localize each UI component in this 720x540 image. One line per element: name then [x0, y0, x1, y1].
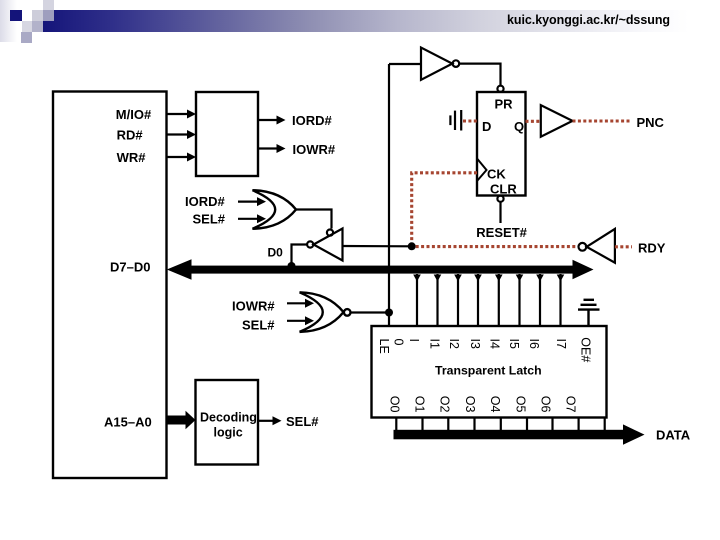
wire IORD# out [258, 116, 286, 125]
header url text [507, 13, 670, 27]
svg-text:DATA: DATA [656, 428, 691, 443]
wire M/IO# [167, 110, 197, 119]
header light column [43, 0, 54, 11]
wire RDY (dotted) [615, 245, 632, 248]
wire WR# [167, 153, 197, 162]
svg-text:O3: O3 [463, 396, 477, 413]
wire INV1 out to PR [459, 64, 500, 86]
header navy square [10, 10, 22, 21]
svg-text:D7–D0: D7–D0 [110, 260, 150, 275]
svg-text:I3: I3 [468, 339, 482, 349]
node D0 on bus [288, 262, 296, 270]
wire latch output 4 [500, 418, 502, 432]
wire B2 to PNC (dotted) [573, 119, 632, 122]
svg-text:O5: O5 [513, 396, 527, 413]
wire CK (dotted) [412, 173, 477, 244]
wire G2 out to LE [351, 311, 390, 313]
wire latch output 3 [473, 418, 475, 432]
wire B1 out to D0 node [292, 245, 308, 265]
decoding logic box U4 [196, 380, 259, 465]
svg-text:O7: O7 [564, 396, 578, 413]
bus DATA [394, 424, 645, 444]
svg-text:CK: CK [487, 167, 506, 182]
inverter INV1 [421, 48, 459, 80]
svg-text:Decoding: Decoding [200, 411, 257, 425]
svg-text:WR#: WR# [117, 150, 147, 165]
header square b (over bar) [43, 10, 54, 21]
buffer B3 (RDY) [579, 229, 615, 263]
wire IORD# into G1 [238, 197, 266, 206]
wire CLR to RESET# [499, 202, 501, 223]
svg-text:SEL#: SEL# [193, 212, 226, 227]
wire SEL# into G2 [287, 316, 314, 325]
wire bus to latch I4 [495, 274, 503, 326]
svg-text:IORD#: IORD# [185, 194, 226, 209]
wire IOWR# into G2 [287, 299, 314, 308]
decoder box U1 [196, 92, 258, 176]
node CK/RDY junction [408, 242, 416, 250]
clock wedge on FF [477, 159, 487, 182]
wire latch output 2 [447, 418, 449, 432]
wire latch output 6 [551, 418, 553, 432]
wire latch output 5 [526, 418, 528, 432]
svg-text:O0: O0 [387, 396, 401, 413]
svg-text:A15–A0: A15–A0 [104, 415, 152, 430]
wire bus to latch I3 [474, 274, 482, 326]
CPU box [53, 92, 167, 479]
CLR bubble [497, 196, 503, 202]
svg-text:I4: I4 [488, 339, 502, 349]
wire latch output 0 [395, 418, 397, 432]
wire SEL# out [258, 416, 282, 425]
svg-text:M/IO#: M/IO# [116, 107, 152, 122]
svg-text:RDY: RDY [638, 241, 666, 256]
wire bus to latch I2 [454, 274, 462, 326]
rotated latch pin labels [377, 337, 592, 412]
wire latch output 7 [577, 418, 579, 432]
svg-text:Transparent Latch: Transparent Latch [435, 364, 542, 378]
wire bus to latch I6 [536, 274, 544, 326]
PR bubble [497, 86, 503, 92]
wire power to D (dotted) [463, 119, 477, 122]
wire G1 out to buffer enable [296, 210, 332, 229]
wire INV1 input [389, 63, 421, 65]
bus D7-D0 [167, 259, 594, 280]
thick arrow A15-A0 [167, 411, 196, 429]
svg-text:I5: I5 [507, 339, 521, 349]
svg-text:SEL#: SEL# [242, 318, 275, 333]
svg-text:OE#: OE# [578, 337, 592, 362]
ground GND1 [578, 300, 600, 326]
svg-text:I6: I6 [527, 339, 541, 349]
svg-text:Q: Q [514, 119, 524, 134]
wire latch output 1 [421, 418, 423, 432]
header square c [22, 21, 33, 31]
nor-gate G2 [300, 292, 351, 332]
svg-text:IOWR#: IOWR# [232, 299, 275, 314]
svg-text:IOWR#: IOWR# [293, 142, 336, 157]
wire SEL# into G1 [238, 214, 266, 223]
wire bus to latch I5 [516, 274, 524, 326]
svg-text:I1: I1 [427, 339, 441, 349]
svg-text:D: D [482, 119, 491, 134]
node LE junction [385, 309, 393, 317]
svg-text:SEL#: SEL# [286, 414, 319, 429]
wire Q to buffer (dotted) [526, 120, 541, 123]
latch U3 [372, 326, 607, 418]
power symbol bars [450, 110, 461, 131]
header left gradient strip [0, 0, 17, 42]
svg-text:I2: I2 [447, 339, 461, 349]
wire bus to latch I1 [434, 274, 442, 326]
wire LE vertical [388, 64, 390, 326]
svg-text:IORD#: IORD# [292, 113, 333, 128]
svg-text:LE: LE [377, 339, 391, 354]
wire junction to RDY buffer (dotted) [416, 245, 578, 248]
svg-text:D0: D0 [268, 246, 284, 260]
svg-text:O4: O4 [488, 396, 502, 413]
svg-text:I7: I7 [554, 339, 568, 349]
svg-text:I: I [407, 339, 421, 342]
wire B1 input [343, 245, 412, 248]
svg-text:PR: PR [495, 97, 514, 112]
flip-flop U2 [477, 92, 526, 196]
svg-text:O6: O6 [539, 396, 553, 413]
tri-state inverter B1 [307, 229, 342, 261]
svg-text:PNC: PNC [637, 115, 665, 130]
svg-text:O2: O2 [438, 396, 452, 413]
header square a [32, 10, 43, 21]
wire bus to latch I7 [557, 274, 565, 326]
wire IOWR# out [258, 144, 286, 153]
wire latch output 8 [604, 418, 606, 432]
svg-text:logic: logic [214, 426, 243, 440]
wire RD# [167, 130, 197, 139]
buffer B2 (PNC) [541, 105, 573, 137]
svg-text:RD#: RD# [117, 128, 144, 143]
header bar gradient [43, 10, 689, 32]
wire bus to latch I0 [413, 274, 421, 326]
or-gate G1 [252, 190, 296, 229]
svg-text:CLR: CLR [490, 182, 517, 197]
header square d [32, 21, 43, 31]
svg-text:0: 0 [392, 339, 406, 346]
header square e [21, 32, 32, 43]
svg-text:O1: O1 [413, 396, 427, 413]
svg-text:RESET#: RESET# [476, 225, 527, 240]
